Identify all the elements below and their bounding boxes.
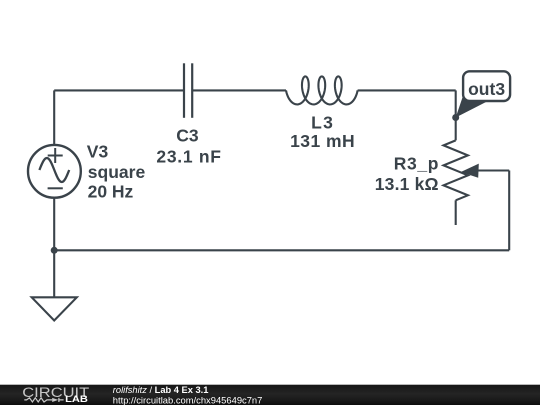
wire V3 top stub [53,90,55,145]
potentiometer R3_p body [444,140,468,200]
svg-text:square: square [88,162,146,182]
svg-text:L3: L3 [311,113,334,133]
wire wiper to right rail [475,169,509,171]
ground symbol [32,297,77,320]
svg-text:131 mH: 131 mH [290,131,355,151]
svg-text:20 Hz: 20 Hz [88,181,134,201]
junction dot at out3 node [452,114,459,121]
svg-text:C3: C3 [176,126,199,146]
junction dot at ground node [51,247,58,254]
V3 minus sign [48,187,63,189]
wire bottom [54,249,509,251]
V3 sine symbol [39,158,69,182]
wire L3 to corner [358,89,456,91]
svg-text:R3_p: R3_p [394,154,439,174]
svg-text:V3: V3 [87,142,109,162]
CircuitLab logo diode symbol [52,398,58,402]
svg-text:out3: out3 [468,79,505,99]
wire node to R3_p [455,118,457,141]
V3 plus sign [48,148,63,163]
inductor L3 [286,76,358,104]
node out3 callout tail [456,97,487,118]
svg-text:13.1 kΩ: 13.1 kΩ [375,174,439,194]
wire ground stub [53,250,55,297]
svg-text:http://circuitlab.com/chx94564: http://circuitlab.com/chx945649c7n7 [113,394,263,405]
CircuitLab logo resistor symbol [24,398,52,402]
wire V3 bottom stub [53,197,55,250]
wire top left V3 to C3 [54,89,184,91]
svg-text:23.1 nF: 23.1 nF [156,146,221,166]
svg-text:LAB: LAB [65,394,88,404]
capacitor C3 [184,63,192,118]
node out3 callout box [463,71,510,101]
wire corner down to node out3 [455,90,457,117]
wire right rail down [508,171,510,251]
wiper arrow of R3_p [461,164,479,178]
R3_p bottom stub [455,200,457,225]
wire C3 to L3 [192,89,286,91]
voltage source V3 circle [28,145,81,198]
